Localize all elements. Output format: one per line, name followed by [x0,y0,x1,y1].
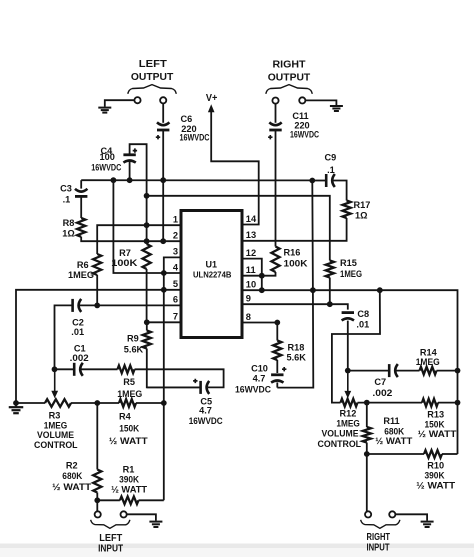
svg-text:4.7: 4.7 [199,405,212,415]
svg-text:R1: R1 [123,465,135,475]
svg-text:R7: R7 [119,248,131,258]
svg-text:½ WATT: ½ WATT [111,484,147,494]
capacitor C7 0.002uF [389,364,398,377]
svg-text:R17: R17 [354,200,371,210]
svg-text:CONTROL: CONTROL [34,440,78,450]
svg-text:1MEG: 1MEG [340,269,362,279]
svg-text:.1: .1 [327,165,335,175]
junction pin6 line / R6 [94,303,100,309]
svg-text:390K: 390K [119,474,139,484]
terminal right input ground-side [389,511,395,517]
svg-text:2: 2 [173,231,178,241]
junction C7 line / C8 wiper [345,368,351,374]
svg-text:R3: R3 [49,411,61,421]
svg-text:LEFT: LEFT [99,533,122,544]
svg-text:1: 1 [173,215,178,225]
wire left input jack to ground [127,514,156,521]
svg-text:R16: R16 [284,248,301,258]
terminal left output ground-side [134,97,140,103]
wire node dot down to pin2 line [146,196,148,241]
svg-text:OUTPUT: OUTPUT [268,71,311,83]
svg-text:.1: .1 [63,194,71,204]
svg-text:R8: R8 [63,218,75,228]
junction right column / R14 [455,368,461,374]
brace over right output jack [266,85,313,94]
svg-text:OUTPUT: OUTPUT [131,71,174,83]
wire R15 to pin 9 line [329,278,331,305]
svg-text:INPUT: INPUT [98,543,123,554]
svg-text:R2: R2 [66,460,78,470]
junction pin9 line / R15 [327,301,333,307]
capacitor C8 0.01uF [342,313,354,321]
wire junction to right input jack [366,454,368,511]
capacitor C11 220uF [268,122,282,139]
wire R5 right wrap to C5 right [135,369,224,387]
svg-text:11: 11 [246,265,256,275]
wire C9 right to R17 [332,181,347,201]
wire C7 to R14 [395,370,420,372]
svg-text:C9: C9 [325,153,337,163]
svg-text:5.6K: 5.6K [287,352,307,362]
wire C1 to R5 [80,368,118,370]
svg-text:C10: C10 [251,363,268,373]
junction ground column / R3 line [13,400,19,406]
svg-text:C6: C6 [181,114,193,124]
wire C7 left lead [348,370,388,372]
wire pin 5 to far-left ground column [16,290,181,403]
svg-text:R13: R13 [427,410,444,420]
junction supply rail / C6 [160,177,166,183]
svg-text:R5: R5 [123,377,135,387]
ground at left input [149,522,162,527]
wire junction to left input jack [96,500,98,511]
wire C8 down to C7 junction [347,321,349,371]
resistor R5 1MEG [118,366,135,374]
junction pin2 line / R7 column [144,238,150,244]
wire C3 to R8 [80,197,82,218]
wire R2 to R1 junction [96,493,98,501]
svg-text:C2: C2 [72,318,84,328]
wire C1 left lead [55,368,74,370]
capacitor C10 4.7uF [271,367,286,383]
wire R7 to pin7 line [146,269,148,322]
svg-text:C3: C3 [60,183,72,193]
wire pin 9 line to C8 [242,304,348,309]
wire R11 to bottom junction [366,443,368,455]
brace over left output jack [128,85,177,94]
wire C4 plus loop to node line [130,144,147,196]
svg-text:U1: U1 [206,259,218,269]
junction R10 line / R11 [364,451,370,457]
svg-text:½ WATT: ½ WATT [375,436,412,446]
wire C9 junction down to pin10 line and C10 wrap [277,181,313,388]
junction pin4 line / pin3 column [161,270,167,276]
wire R10 right lead [442,453,458,455]
wire C5 left lead [147,386,201,388]
wire R14 right lead [437,370,458,372]
capacitor C9 0.1uF [326,174,335,187]
svg-text:4: 4 [173,262,179,272]
svg-text:.01: .01 [71,327,84,337]
wire node line from C4+/R7 over to R15 column [147,196,330,261]
resistor R11 680K [363,427,371,443]
svg-text:RIGHT: RIGHT [273,58,307,70]
resistor R12 1MEG volume control [341,399,358,407]
svg-text:½ WATT: ½ WATT [416,481,455,491]
ground at right input [421,522,434,527]
junction supply rail / C4 [127,177,133,183]
wire ground stub [15,403,17,406]
wire R18 to C10 [276,360,278,373]
wire left output jack to ground [105,100,135,107]
junction pin5 line / column [161,287,167,293]
op-amp U1 ULN2274B IC body [181,211,242,338]
svg-text:5: 5 [173,279,178,289]
brace under right input jack [361,520,400,529]
resistor R9 5.6K [143,331,151,349]
svg-text:1MEG: 1MEG [336,419,360,429]
wire pin 10 line to right column [242,290,458,454]
terminal left input ground-side [121,511,127,517]
wire C11 down through rails to R16 [275,131,277,247]
svg-text:½ WATT: ½ WATT [109,436,148,446]
wire R11 top lead [366,403,368,427]
wire C6 to supply rail and down to pin2 line [162,131,164,242]
resistor R7 100K [143,244,151,269]
wiper arrow of volume pot R12 [344,373,351,398]
wire R8 to pin 2 line [81,237,181,241]
wire R13 right lead [438,402,458,404]
junction pin10 line / pin12 column [259,287,265,293]
svg-text:R4: R4 [119,411,132,421]
resistor R8 1 ohm [77,218,85,237]
svg-text:3: 3 [173,247,178,257]
svg-text:680K: 680K [384,427,404,437]
capacitor C4 100uF [123,148,137,162]
wire supply rail C3 to C9 [81,179,312,181]
wire pin 12 down to pin 10 line [242,259,262,291]
junction pin8 / R18 [274,320,280,326]
resistor R6 1MEG [93,254,101,275]
svg-text:CONTROL: CONTROL [318,439,362,449]
svg-text:R15: R15 [340,258,357,268]
junction pin10 line / R12 riser [377,287,383,293]
resistor R15 1MEG [326,261,334,278]
wire R16 bottom to pin 11 line [242,272,276,276]
svg-text:100: 100 [100,152,115,162]
capacitor C1 0.002uF [74,363,83,376]
terminal right input signal [365,511,371,517]
junction R3-R4 / R2 [94,400,100,406]
wire R11 junction to R10 [367,453,424,455]
junction right column / R13 [455,400,461,406]
resistor R14 1MEG [420,367,437,375]
wire pin 8 to R18 [242,323,277,341]
junction supply rail / C9 left [309,178,315,184]
wire right output jack to ground [305,100,336,105]
resistor R18 5.6K [273,341,281,361]
wire ground to R3 [16,402,45,404]
svg-text:1MEG: 1MEG [68,270,94,280]
svg-text:8: 8 [246,312,251,322]
junction pin2 line / C6 column [160,238,166,244]
wire R9 down to C5 line [147,349,200,388]
wire R12 to R13 [358,402,423,404]
resistor R13 150K [422,399,438,407]
junction R12-R13 / R11 [364,400,370,406]
svg-text:VOLUME: VOLUME [37,430,74,440]
capacitor C2 0.01uF [73,299,82,312]
wire R1 right lead up column [139,499,164,501]
terminal right output ground-side [299,97,305,103]
svg-text:R11: R11 [383,416,399,426]
svg-text:R6: R6 [77,260,89,270]
svg-text:½ WATT: ½ WATT [52,482,91,492]
wire jack to C6 [162,104,164,123]
svg-text:10: 10 [246,280,256,290]
svg-text:R18: R18 [288,343,305,353]
wire pin 4 line with riser to supply rail [113,180,181,273]
brace under left input jack [91,520,130,529]
wire R1 left lead [97,499,120,501]
wire pin7 dot to R9 [146,322,148,330]
resistor R4 150K [119,399,136,407]
svg-text:1Ω: 1Ω [355,211,367,221]
svg-text:16WVDC: 16WVDC [189,416,223,426]
terminal left output signal [160,97,166,103]
junction node line / R7 column [144,193,150,199]
wire C2 left lead down to C1 line [55,305,74,369]
ground at right output [330,106,343,111]
junction pin1 line / R7 column [144,222,150,228]
junction pin11 line / pin12 column [259,273,265,279]
wire R4 right lead [136,402,164,404]
wiper arrow of volume pot R3 [51,369,58,398]
svg-text:RIGHT: RIGHT [367,532,391,543]
svg-text:16WVDC: 16WVDC [91,163,121,173]
V+ arrow head [208,104,215,112]
svg-text:.01: .01 [356,320,369,330]
svg-text:1Ω: 1Ω [62,228,74,238]
svg-text:6: 6 [173,295,178,305]
svg-text:16WVDC: 16WVDC [235,384,271,394]
terminal left input signal [95,511,101,517]
svg-text:16WVDC: 16WVDC [180,133,210,143]
wire C9 left lead [312,180,325,182]
terminal right output signal [272,98,278,104]
wire pin10 junction down to R12 left end [332,290,380,402]
wire R6 bottom to pin6 line [96,275,98,305]
svg-text:12: 12 [246,248,256,258]
wire pin 7 line [147,321,181,323]
wire pin 3 to pin4 junction column [164,257,181,500]
resistor R16 100K [271,247,279,273]
svg-text:C1: C1 [74,344,86,354]
capacitor C6 220uF [156,122,170,139]
wire C10 bottom wrap [276,382,278,387]
wire pin2 dot to R7 [146,241,148,244]
junction pin10 line / C10 column [310,287,316,293]
svg-text:9: 9 [246,294,251,304]
svg-text:.002: .002 [70,353,89,363]
resistor R2 680K [93,470,101,493]
svg-text:C8: C8 [357,309,369,319]
junction supply rail / pin4 riser [111,177,117,183]
wire supply rail down to C3 [80,180,82,188]
junction C1 line / wiper column [52,366,58,372]
capacitor C3 0.1uF [75,189,87,197]
svg-text:4.7: 4.7 [253,374,266,384]
svg-text:150K: 150K [119,423,139,433]
svg-text:R10: R10 [427,461,444,471]
ground at left output [98,108,111,113]
resistor R3 1MEG volume control [45,399,71,407]
svg-text:1MEG: 1MEG [416,357,440,367]
wire C4 bottom lead [129,161,131,180]
svg-text:.002: .002 [372,388,392,398]
svg-text:INPUT: INPUT [367,543,390,554]
wire right input jack to ground [395,514,427,521]
wire R3 to R4 [71,402,119,404]
wire R17 to pin 13 line [242,218,347,241]
svg-text:R12: R12 [339,409,356,419]
svg-text:16WVDC: 16WVDC [290,130,319,140]
svg-text:VOLUME: VOLUME [322,428,359,438]
svg-text:V+: V+ [206,93,218,104]
junction R1 line / R2 [94,497,100,503]
wire pin 1 to R6 top [97,225,181,254]
svg-text:C7: C7 [374,377,386,387]
svg-text:680K: 680K [62,471,82,481]
svg-text:½ WATT: ½ WATT [418,429,457,439]
wire jack to C11 [275,104,277,123]
junction R4 line / column [161,400,167,406]
svg-text:100K: 100K [284,259,308,269]
junction pin7 line / R7-R9 [144,319,150,325]
svg-text:14: 14 [246,214,257,224]
resistor R17 1 ohm [343,201,351,219]
capacitor C5 4.7uF [193,379,209,394]
svg-text:390K: 390K [425,470,445,480]
wire V+ to pin 14 [211,111,259,225]
resistor R1 390K [120,497,139,505]
wire pin 6 line to C2 [78,304,181,306]
svg-text:LEFT: LEFT [139,58,168,70]
resistor R10 390K [424,450,442,458]
svg-text:100K: 100K [111,258,137,268]
svg-text:ULN2274B: ULN2274B [193,270,232,280]
svg-text:13: 13 [246,230,256,240]
svg-text:7: 7 [173,312,178,322]
svg-text:R9: R9 [127,334,139,344]
svg-text:R14: R14 [420,348,438,358]
ground at bottom left [9,407,24,413]
wire R2 top lead [96,403,98,470]
svg-text:5.6K: 5.6K [124,345,144,355]
